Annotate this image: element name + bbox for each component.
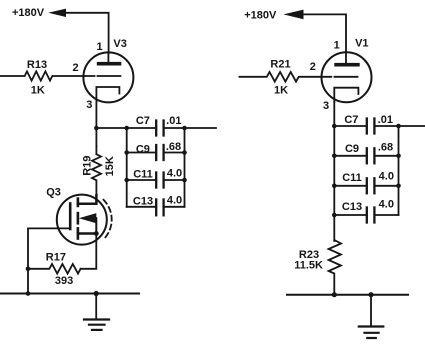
svg-text:C7: C7 (344, 114, 358, 126)
Q3 dashed secondary envelope arc (104, 200, 112, 240)
V1 cathode (334, 88, 358, 102)
svg-text:.01: .01 (166, 115, 181, 127)
ground rail (left) (0, 293, 139, 295)
svg-text:4.0: 4.0 (379, 198, 394, 210)
svg-text:4.0: 4.0 (167, 195, 182, 207)
capacitor C9 (left) row (127, 152, 157, 154)
triode V3 envelope (83, 52, 133, 102)
triode V1 envelope (322, 52, 372, 102)
junction dot: Q3 source/bulk (94, 231, 99, 236)
Q3 source lead (78, 232, 96, 235)
capacitor C7 (right) row (334, 125, 367, 127)
wire: V1 cathode down ladder rail to R23 (333, 102, 335, 241)
resistor R13 (0, 71, 84, 80)
left ladder right rail (184, 128, 186, 207)
capacitor C13 (left) row (127, 206, 157, 208)
svg-text:4.0: 4.0 (167, 168, 182, 180)
ground symbol (right) (370, 295, 372, 327)
Q3 channel (dashed) (77, 199, 80, 206)
svg-text:C9: C9 (345, 143, 359, 155)
+180V arrow (left) (48, 9, 66, 17)
resistor R17 (28, 264, 81, 274)
svg-text:15K: 15K (104, 156, 116, 176)
Q3 gate bar (69, 204, 72, 230)
wire: +180V arrow to V1 pin 1 (horizontal then down) (300, 14, 347, 53)
V3 cathode (96, 87, 119, 102)
svg-text:3: 3 (323, 100, 329, 112)
svg-text:C11: C11 (342, 172, 362, 184)
transistor Q3 (MOSFET) envelope (57, 195, 107, 245)
svg-text:C13: C13 (342, 201, 362, 213)
capacitor C9 (right) row (334, 155, 367, 157)
svg-text:.68: .68 (166, 141, 181, 153)
wire: V3 cathode down to node (95, 102, 97, 147)
capacitor C11 (right) row (334, 185, 367, 187)
left capacitor ladder: wire node to C7 left plate (96, 127, 156, 129)
junction dot: ground stem (left) (94, 291, 99, 296)
capacitor C7 (left) plates (155, 121, 157, 136)
V1 plate (pin 1 lead and anode bar) (345, 53, 347, 63)
capacitor C13 (right) row (334, 214, 367, 216)
svg-text:3: 3 (86, 99, 92, 111)
svg-text:C11: C11 (133, 169, 153, 181)
svg-text:11.5K: 11.5K (294, 260, 323, 272)
resistor R23 (vertical) (329, 240, 341, 295)
left ladder left rail (126, 128, 128, 207)
svg-text:Q3: Q3 (46, 187, 61, 199)
svg-text:+180V: +180V (244, 10, 277, 22)
svg-text:R13: R13 (27, 59, 47, 71)
wire: Q3 source down to R17 right end (81, 234, 97, 269)
svg-text:R17: R17 (46, 251, 66, 263)
junction dots on right main rail (C rows) (332, 124, 337, 129)
svg-text:1: 1 (96, 41, 102, 53)
svg-text:C7: C7 (136, 115, 150, 127)
svg-text:R19: R19 (81, 156, 93, 176)
svg-text:.01: .01 (378, 114, 393, 126)
junction dot: V3 cathode / C7 row / R19 (94, 126, 99, 131)
svg-text:R21: R21 (270, 59, 290, 71)
svg-text:4.0: 4.0 (379, 171, 394, 183)
resistor R21 (240, 72, 323, 82)
Q3 drain lead (78, 195, 97, 204)
svg-text:1: 1 (334, 40, 340, 52)
wire: C7 right plate to right rail and out (164, 127, 216, 129)
svg-text:+180V: +180V (12, 7, 45, 19)
junction dot: left vertical / ground rail (26, 291, 31, 296)
svg-text:393: 393 (55, 275, 73, 287)
resistor R19 (vertical) (92, 147, 101, 196)
ground rail (right) (287, 294, 408, 296)
capacitor C11 (left) row (127, 179, 157, 181)
wire: R19 to Q3 drain (95, 195, 97, 204)
wire: +180V arrow to V3 pin 1 (horizontal then down) (64, 13, 109, 53)
V3 plate (pin 1 lead and anode bar) (107, 53, 109, 62)
svg-text:2: 2 (72, 62, 78, 74)
svg-text:V3: V3 (113, 38, 126, 50)
Q3 bulk arrow (79, 213, 96, 223)
ground symbol (left) (95, 294, 97, 320)
V3 grid (pin 2 lead and dashed grid) (84, 75, 120, 77)
wire: Q3 gate to left vertical (28, 228, 70, 293)
svg-text:.68: .68 (378, 141, 393, 153)
junction dot: R23 / ground rail (332, 292, 337, 297)
svg-text:1K: 1K (31, 85, 45, 97)
Q3 bulk-source tie (95, 218, 97, 233)
V1 grid (pin 2 lead and dashed grid) (322, 76, 358, 78)
junction dots on left ladder rails (124, 126, 129, 131)
junction dot: ground stem (right) (368, 292, 373, 297)
right ladder right rail (398, 126, 400, 215)
svg-text:1K: 1K (274, 85, 288, 97)
junction dots on right ladder right rail (396, 124, 401, 129)
svg-text:V1: V1 (355, 37, 368, 49)
svg-text:2: 2 (310, 61, 316, 73)
svg-text:C13: C13 (133, 196, 153, 208)
junction dot: gate wire / R17 left (26, 267, 31, 272)
svg-text:C9: C9 (136, 144, 150, 156)
+180V arrow (right) (284, 10, 304, 20)
